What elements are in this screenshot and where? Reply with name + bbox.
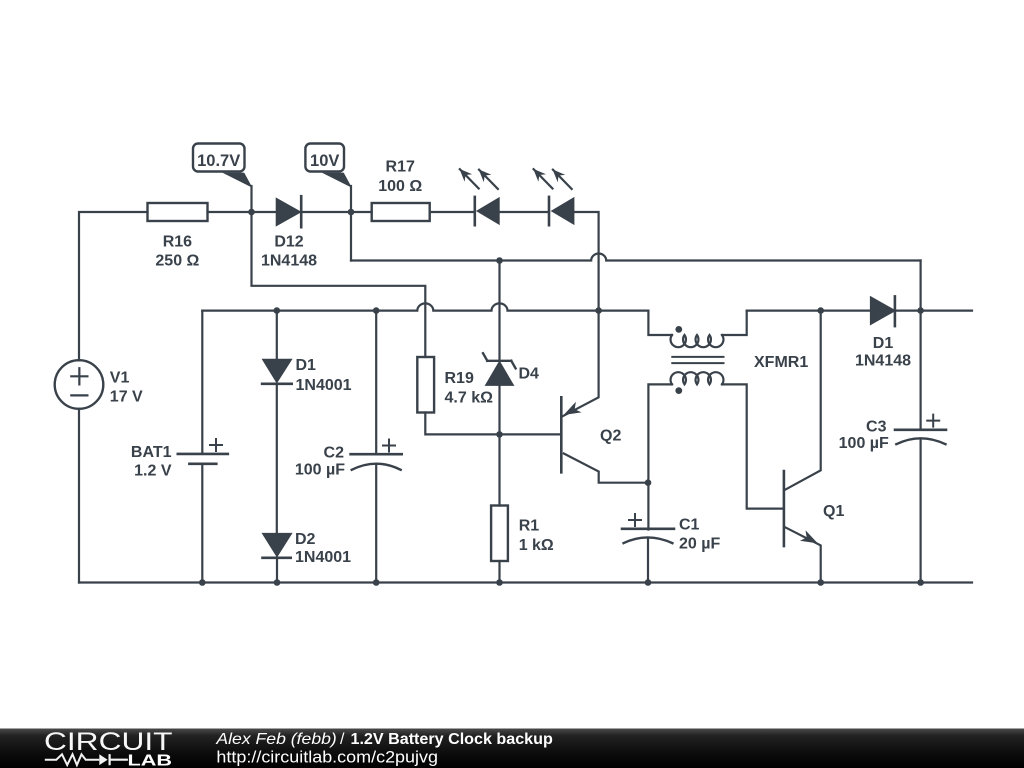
wire top rail left segment with hops at 425.3 and 499.5 <box>202 303 672 335</box>
diode D1 right <box>871 296 895 326</box>
svg-text:D12: D12 <box>274 234 303 251</box>
svg-text:D2: D2 <box>295 531 316 548</box>
svg-text:1N4001: 1N4001 <box>296 377 352 394</box>
wire 10V node to C3 (y=260.5) with hop over x=598.6 <box>351 254 921 261</box>
svg-text:XFMR1: XFMR1 <box>754 354 808 371</box>
svg-text:LAB: LAB <box>128 752 173 768</box>
transistor Q2 <box>561 311 648 483</box>
svg-text:100 Ω: 100 Ω <box>378 178 422 195</box>
resistor R16 <box>148 203 208 221</box>
svg-text:1N4001: 1N4001 <box>295 549 351 566</box>
svg-text:D1: D1 <box>296 357 317 374</box>
node bottom rail dots <box>199 579 206 586</box>
capacitor C3 <box>895 415 946 445</box>
LED1 <box>475 197 499 225</box>
diode D12 <box>277 196 301 227</box>
wire top rail right segment <box>747 310 871 312</box>
resistor R17 <box>372 203 430 221</box>
svg-text:1.2V Battery Clock backup: 1.2V Battery Clock backup <box>351 731 554 748</box>
svg-text:10.7V: 10.7V <box>197 152 240 170</box>
svg-text:V1: V1 <box>110 369 130 386</box>
svg-text:10V: 10V <box>310 152 339 170</box>
node junction (499.5,260.5) <box>496 257 503 264</box>
svg-text:R1: R1 <box>519 518 540 535</box>
transformer XFMR1 secondary <box>648 372 784 529</box>
wire V1 bottom <box>78 409 80 583</box>
svg-text:/: / <box>340 731 345 748</box>
LED2 arrows <box>534 169 572 189</box>
node 10V junction <box>348 209 355 216</box>
svg-text:C2: C2 <box>324 445 345 462</box>
svg-text:20 µF: 20 µF <box>679 536 720 553</box>
wire 10.7V branch down-right to R19 <box>252 212 426 357</box>
callout 10V <box>305 144 352 261</box>
resistor R1 <box>491 506 508 583</box>
svg-text:1 kΩ: 1 kΩ <box>519 537 554 554</box>
diode D1 1N4001 <box>262 311 292 534</box>
transformer core <box>672 357 723 363</box>
wire R16 to D12 <box>208 211 277 213</box>
wire R17 to LED1 <box>430 211 475 213</box>
transformer XFMR1 primary <box>671 311 747 348</box>
svg-text:100 µF: 100 µF <box>839 435 889 452</box>
svg-text:C1: C1 <box>679 517 700 534</box>
svg-text:1.2 V: 1.2 V <box>134 463 172 480</box>
diode D2 1N4001 <box>263 534 291 583</box>
svg-text:17 V: 17 V <box>110 388 143 405</box>
node 10.7V junction <box>248 209 255 216</box>
wire LED2 return down to rail <box>573 212 598 311</box>
svg-text:1N4148: 1N4148 <box>261 252 317 269</box>
resistor R19 <box>417 357 499 434</box>
zener diode D4 <box>483 261 516 506</box>
LED1 arrows <box>460 169 498 189</box>
svg-text:D1: D1 <box>873 335 894 352</box>
svg-text:BAT1: BAT1 <box>131 444 172 461</box>
svg-text:Q1: Q1 <box>823 503 844 520</box>
wire C3 branch vertical <box>919 261 921 583</box>
wire D1 to right end <box>895 310 972 312</box>
wire Q2 base <box>500 433 562 435</box>
LED2 <box>549 197 573 225</box>
wire bottom rail <box>79 581 972 583</box>
battery BAT1 <box>178 311 228 583</box>
svg-text:R17: R17 <box>386 158 415 175</box>
wire D12 to R17 <box>301 211 372 213</box>
svg-text:R19: R19 <box>445 370 474 387</box>
svg-text:250 Ω: 250 Ω <box>155 253 199 270</box>
svg-text:http://circuitlab.com/c2pujvg: http://circuitlab.com/c2pujvg <box>216 749 438 767</box>
wire V1 top to R16 <box>79 212 148 360</box>
node rail dots <box>274 307 281 314</box>
svg-text:4.7 kΩ: 4.7 kΩ <box>445 390 494 407</box>
transistor Q1 <box>784 311 821 583</box>
svg-text:Q2: Q2 <box>600 427 621 444</box>
voltage source V1 <box>55 360 104 409</box>
node rail dots right <box>817 307 824 314</box>
logo diode <box>99 754 128 765</box>
callout 10.7V <box>193 144 252 213</box>
wire LED1 to LED2 <box>499 211 549 213</box>
svg-text:1N4148: 1N4148 <box>855 353 911 370</box>
node Q2 base junction <box>496 431 503 438</box>
svg-text:C3: C3 <box>866 419 887 436</box>
logo resistor zigzag <box>45 754 100 765</box>
capacitor C2 <box>351 311 402 583</box>
svg-text:Alex Feb (febb): Alex Feb (febb) <box>215 731 337 748</box>
node C1 junction <box>645 479 652 486</box>
svg-text:100 µF: 100 µF <box>295 462 345 479</box>
capacitor C1 <box>622 514 674 583</box>
svg-text:D4: D4 <box>519 366 540 383</box>
svg-text:R16: R16 <box>163 234 192 251</box>
